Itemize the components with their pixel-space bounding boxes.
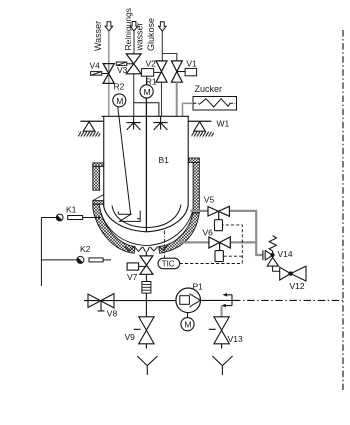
pipe pump discharge	[201, 299, 234, 301]
jacket bottom teeth	[125, 245, 168, 251]
branch connector with arrows	[221, 293, 232, 307]
svg-text:V14: V14	[278, 249, 293, 259]
valve V5	[208, 206, 229, 219]
svg-text:M: M	[144, 87, 151, 97]
wire Zucker feed line	[183, 103, 194, 116]
svg-text:V8: V8	[107, 308, 118, 318]
jacket left lower band	[93, 204, 135, 253]
jacket left break diagonal	[93, 195, 104, 201]
svg-text:V3: V3	[117, 65, 128, 75]
arrow Wasser inlet	[105, 22, 113, 32]
wire K1-K2 left connector	[40, 218, 42, 286]
vessel B1 right wall	[187, 116, 189, 206]
svg-text:V1: V1	[186, 59, 197, 69]
valve V1	[171, 61, 182, 82]
drain funnel below V9	[137, 356, 157, 375]
svg-text:V12: V12	[290, 281, 305, 291]
actuator V6	[215, 251, 223, 262]
vessel B1 top edge	[102, 115, 190, 117]
motor R2	[113, 94, 126, 107]
vessel drain pipe	[145, 252, 147, 256]
wire Wasser line (arrow to V4 to vessel top)	[108, 31, 110, 116]
actuator box V7	[127, 263, 139, 270]
agitator R2 angled shaft	[118, 107, 131, 214]
wire V14 to V12	[273, 266, 280, 271]
vessel B1 inner liner curve	[112, 205, 181, 228]
motor R1	[140, 76, 153, 98]
spray nozzle 1	[126, 116, 140, 130]
valve V13	[209, 317, 230, 349]
support right W1	[188, 121, 214, 137]
actuator box V3	[116, 62, 127, 65]
svg-text:Zucker: Zucker	[195, 84, 223, 94]
svg-text:Wasser: Wasser	[93, 21, 103, 51]
svg-text:P1: P1	[193, 281, 204, 291]
svg-text:B1: B1	[159, 155, 170, 165]
boundary dash-dot vertical	[342, 30, 344, 390]
valve V2	[156, 61, 167, 82]
pipe V5 line	[191, 211, 264, 255]
actuator box V1	[177, 68, 197, 75]
valve V9	[134, 317, 155, 349]
svg-text:V4: V4	[90, 61, 101, 71]
valve V3	[126, 54, 141, 74]
svg-text:V7: V7	[127, 272, 138, 282]
svg-text:wasser: wasser	[135, 23, 145, 52]
svg-text:V13: V13	[228, 334, 243, 344]
motor P1	[181, 318, 194, 331]
valve V8	[88, 294, 114, 311]
svg-text:Reinigungs: Reinigungs	[123, 8, 133, 51]
wire drain junction to V9	[145, 301, 147, 317]
svg-text:V6: V6	[203, 228, 214, 238]
wire TIC control dashed	[180, 225, 243, 264]
agitator R1 shaft	[145, 98, 147, 232]
wire pump to motor	[187, 313, 189, 318]
jacket right strip cap	[189, 158, 200, 163]
svg-text:R2: R2	[114, 82, 125, 92]
svg-text:K2: K2	[80, 244, 91, 254]
valve V4	[102, 64, 115, 84]
svg-text:TIC: TIC	[162, 260, 175, 269]
wire drain to bellows	[145, 274, 147, 300]
jacket right strip	[193, 163, 199, 214]
arrow Reinigungswasser inlet	[130, 22, 138, 32]
actuator box V4	[91, 72, 102, 76]
actuator box V2	[141, 69, 161, 77]
drain funnel below V13	[212, 356, 232, 375]
valve V6	[209, 237, 230, 251]
jacket inner bottom curve	[100, 207, 194, 246]
wire motor platform	[134, 103, 159, 117]
wire V2 drop to vessel	[161, 82, 163, 116]
boundary dash-dot horizontal	[233, 299, 343, 301]
jacket left upper strip	[93, 166, 100, 190]
svg-text:Glukose: Glukose	[146, 18, 156, 51]
jacket right lower band	[159, 211, 200, 253]
svg-text:K1: K1	[66, 205, 77, 215]
wire branch to V13	[221, 306, 223, 317]
agitator R2 paddle	[118, 211, 140, 222]
svg-text:W1: W1	[217, 118, 230, 128]
jacket left lower cap	[93, 201, 104, 205]
svg-text:M: M	[184, 320, 191, 330]
svg-text:V9: V9	[125, 332, 136, 342]
wire Glukose line with branch to V1	[162, 31, 177, 61]
valve V12	[280, 266, 306, 281]
instrument TIC	[158, 258, 180, 269]
pump P1	[176, 288, 201, 313]
svg-text:V2: V2	[146, 59, 157, 69]
vessel B1 dished bottom	[104, 205, 188, 232]
wire TIC probe dash-dot	[163, 231, 165, 259]
spray nozzle 2	[153, 116, 167, 130]
bellows below V7	[142, 282, 151, 294]
jacket left top cap	[93, 163, 104, 167]
vessel B1 left wall	[103, 116, 105, 207]
svg-text:M: M	[116, 96, 123, 106]
svg-text:V5: V5	[204, 195, 215, 205]
valve V14 three-way with spring	[263, 236, 279, 267]
pipe V8 suction line	[84, 300, 176, 302]
wire V1 drop to vessel	[176, 82, 178, 116]
pipe V6 line	[179, 241, 256, 243]
wire Reinigungswasser line arrow to V3	[133, 31, 135, 117]
support left	[78, 121, 104, 137]
actuator V5	[215, 220, 223, 231]
valve V7	[140, 256, 153, 274]
arrow Glukose inlet	[159, 22, 167, 32]
feeder Zucker screw conveyor	[193, 97, 237, 111]
